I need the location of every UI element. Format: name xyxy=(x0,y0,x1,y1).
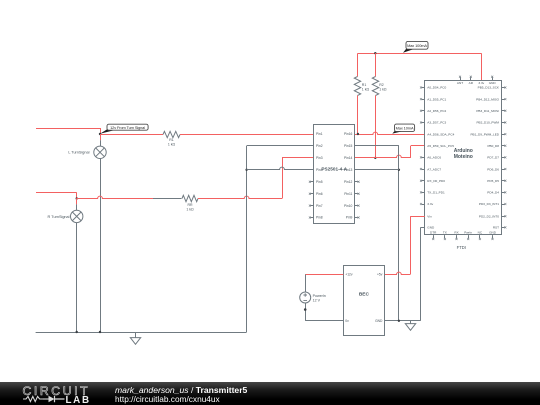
wire net 12v-R from left edge xyxy=(36,192,77,194)
wire 12v top rail xyxy=(358,53,481,55)
wire jog to Arduino A5 xyxy=(411,145,425,147)
svg-text:A7_ADC7: A7_ADC7 xyxy=(427,167,441,171)
svg-text:A5_D59_SCL_PC5: A5_D59_SCL_PC5 xyxy=(427,144,454,148)
svg-text:TX: TX xyxy=(443,230,447,234)
svg-text:A1_D55_PC1: A1_D55_PC1 xyxy=(427,97,446,101)
svg-text:PD5_D5: PD5_D5 xyxy=(487,179,499,183)
wire source to BEC +12v xyxy=(305,274,343,276)
svg-text:FTDI: FTDI xyxy=(457,245,466,250)
node junction at R lamp tap xyxy=(76,197,78,199)
pin 10 stub right xyxy=(355,205,358,207)
svg-text:GND: GND xyxy=(375,319,383,323)
wire Arduino GND down xyxy=(420,227,422,320)
wire lead into RR xyxy=(153,198,182,200)
node junction at L lamp tap xyxy=(99,133,101,135)
svg-text:3.3v: 3.3v xyxy=(478,81,484,85)
wire riser to Vin level xyxy=(410,216,412,274)
svg-text:A2_D56_PC2: A2_D56_PC2 xyxy=(427,109,446,113)
svg-text:Pin5: Pin5 xyxy=(316,180,323,184)
svg-text:PS2501-4-A: PS2501-4-A xyxy=(321,167,347,172)
wire to Pin4 (hop over riser) xyxy=(247,167,314,169)
resistor R2 xyxy=(372,77,378,96)
pin left TX_D1_PD1 xyxy=(422,192,425,194)
svg-text:GND: GND xyxy=(489,81,497,85)
svg-text:DTR: DTR xyxy=(430,230,437,234)
wire junction down to L lamp xyxy=(100,134,102,140)
node junction R4/Pin16 xyxy=(357,133,359,135)
wire source top lead xyxy=(305,274,307,292)
pin right PD2_D2_INT0 xyxy=(502,216,505,218)
pin right PB0_D8 xyxy=(502,145,505,147)
wire RL to PS2501 Pin1 xyxy=(180,134,314,136)
pin 9 stub right xyxy=(355,217,358,219)
pin left 3.3v xyxy=(422,204,425,206)
svg-text:RX: RX xyxy=(454,230,458,234)
svg-text:Pin3: Pin3 xyxy=(316,156,323,160)
svg-text:PwrIn: PwrIn xyxy=(464,230,472,234)
pin top AR xyxy=(470,77,472,80)
svg-text:1 kΩ: 1 kΩ xyxy=(168,143,176,147)
wire jog up xyxy=(410,146,412,158)
svg-text:Pin16: Pin16 xyxy=(344,132,353,136)
svg-text:0v: 0v xyxy=(345,319,349,323)
svg-text:NC: NC xyxy=(478,230,483,234)
pin right PB1_D9_PWM_LED xyxy=(502,134,505,136)
wire L lamp to ground rail xyxy=(100,159,102,333)
pin 6 stub left xyxy=(311,193,314,195)
node junction common/Pin4 xyxy=(245,169,247,171)
svg-text:Arduino: Arduino xyxy=(454,148,473,154)
pin bottom TX xyxy=(444,235,446,238)
svg-text:Pin2: Pin2 xyxy=(316,144,323,148)
resistor RR xyxy=(182,195,198,201)
footer bar xyxy=(0,382,540,405)
wire Arduino GND out xyxy=(421,227,425,229)
svg-text:GND: GND xyxy=(427,226,435,230)
wire junction to RR resistor (hop over L lamp wire) xyxy=(77,196,153,198)
pin right PB4_D12_MISO xyxy=(502,99,505,101)
ground symbol left xyxy=(135,332,137,338)
svg-text:GND: GND xyxy=(489,230,497,234)
pin right PD3_D3_INT1 xyxy=(502,204,505,206)
svg-text:PB5_D13_SCK: PB5_D13_SCK xyxy=(478,86,500,90)
wire Pin14 row to jog (hop over gnd drop) xyxy=(355,155,411,157)
svg-text:R1: R1 xyxy=(362,83,367,87)
wire to Arduino Vin xyxy=(410,216,424,218)
svg-text:PB2_D10_PWM: PB2_D10_PWM xyxy=(476,121,499,125)
node junction R2/Pin14 xyxy=(374,157,376,159)
svg-text:Pin7: Pin7 xyxy=(316,204,323,208)
pin 7 stub left xyxy=(311,205,314,207)
pin left A3_D57_PC3 xyxy=(422,122,425,124)
node junction Pin13 on gnd drop xyxy=(398,169,400,171)
wire 12v rail down to Arduino 3.3v pin xyxy=(481,53,483,80)
wire BEC +5v to riser (hop over gnd drop) xyxy=(384,272,410,274)
op-to-coupler U PS2501-4-A body xyxy=(314,125,355,224)
wire Pin13 to gnd drop xyxy=(355,169,399,171)
wire common return to Pin2 xyxy=(247,145,314,147)
svg-text:Pin8: Pin8 xyxy=(316,216,323,220)
svg-text:R TurnSignal: R TurnSignal xyxy=(48,215,70,219)
wire R4 bottom to Pin16 row xyxy=(357,96,359,135)
svg-text:PB1_D9_PWM_LED: PB1_D9_PWM_LED xyxy=(470,132,499,136)
CircuitLab logo xyxy=(0,382,110,405)
wire step down xyxy=(76,193,78,199)
svg-text:12 V: 12 V xyxy=(313,299,321,303)
wire common return vertical xyxy=(246,146,248,332)
pin right PB2_D10_PWM xyxy=(502,122,505,124)
svg-text:3.3v: 3.3v xyxy=(427,202,433,206)
pin right PD7_D7 xyxy=(502,157,505,159)
svg-text:PD2_D2_INT0: PD2_D2_INT0 xyxy=(479,214,499,218)
pin right PD5_D5 xyxy=(502,180,505,182)
svg-text:Pin11: Pin11 xyxy=(344,192,352,196)
svg-text:RR: RR xyxy=(187,203,193,207)
wire Pin16 to Arduino A4 (hop over R2) xyxy=(355,132,425,134)
ground symbol right xyxy=(410,321,412,324)
svg-text:PB4_D12_MISO: PB4_D12_MISO xyxy=(476,97,499,101)
pin left A6_ADC6 xyxy=(422,157,425,159)
lamp R Turnsignal xyxy=(71,210,83,222)
node junction L lamp on rail xyxy=(99,331,101,333)
svg-text:L TurnSignal: L TurnSignal xyxy=(68,151,89,155)
wire gnd drop vertical xyxy=(398,146,400,321)
wire riser up to Pin3 xyxy=(282,158,284,199)
svg-text:R2: R2 xyxy=(379,83,384,87)
wire R2 top lead xyxy=(375,53,377,76)
svg-text:RX_D0_PD0: RX_D0_PD0 xyxy=(427,179,445,183)
svg-text:+12v: +12v xyxy=(345,273,353,277)
pin bottom GND xyxy=(492,235,494,238)
wire ground bus xyxy=(384,320,420,322)
svg-text:Pin12: Pin12 xyxy=(344,180,353,184)
pin left A2_D56_PC2 xyxy=(422,110,425,112)
callout Max 10mA xyxy=(392,130,402,134)
lamp L Turnsignal xyxy=(94,146,106,158)
svg-text:PowerIn: PowerIn xyxy=(313,294,326,298)
svg-text:Pin1: Pin1 xyxy=(316,132,323,136)
pin left A7_ADC7 xyxy=(422,169,425,171)
IC BEC body xyxy=(344,266,385,336)
wire RR to riser (hop over ground branch) xyxy=(198,196,282,198)
svg-text:Max 10mA: Max 10mA xyxy=(396,125,414,130)
pin 12 stub right xyxy=(355,181,358,183)
svg-text:A3_D57_PC3: A3_D57_PC3 xyxy=(427,121,446,125)
svg-text:AR: AR xyxy=(469,81,474,85)
svg-text:1 kΩ: 1 kΩ xyxy=(362,88,370,92)
resistor RL xyxy=(163,131,180,137)
svg-text:PB0_D8: PB0_D8 xyxy=(487,144,499,148)
svg-text:A0_D54_PC0: A0_D54_PC0 xyxy=(427,86,446,90)
pin 11 stub right xyxy=(355,193,358,195)
wire source to BEC 0v xyxy=(305,320,343,322)
wire junction down to R lamp xyxy=(76,199,78,205)
pin top GND xyxy=(492,77,494,80)
pin right PD4_D4 xyxy=(502,192,505,194)
pin right RST xyxy=(502,227,505,229)
wire source bottom lead xyxy=(305,303,307,321)
pin bottom PwrIn xyxy=(468,235,470,238)
svg-text:Pin15: Pin15 xyxy=(344,144,353,148)
IC Arduino Moteino body xyxy=(425,81,502,235)
pin top ANT xyxy=(460,77,462,80)
wire junction to RL xyxy=(100,134,163,136)
svg-text:Max 100mA: Max 100mA xyxy=(407,43,427,48)
svg-text:Pin10: Pin10 xyxy=(344,204,353,208)
svg-text:Moteino: Moteino xyxy=(454,154,473,160)
node junction gnd drop/bus xyxy=(398,320,400,322)
svg-text:Vin: Vin xyxy=(427,214,432,218)
svg-text:12v From Turn Signal: 12v From Turn Signal xyxy=(110,125,145,130)
wire R4 top lead xyxy=(357,53,359,76)
svg-text:PD6_D6: PD6_D6 xyxy=(487,167,499,171)
pin 8 stub left xyxy=(311,217,314,219)
pin right PB5_D13_SCK xyxy=(502,87,505,89)
pin right PB3_D11_MOSI xyxy=(502,110,505,112)
resistor R1 xyxy=(354,77,360,96)
wire R2 bottom down to Pin14 row xyxy=(375,96,377,158)
wire net 12v-L from left edge xyxy=(36,128,100,130)
svg-text:RST: RST xyxy=(493,226,499,230)
svg-text:PD7_D7: PD7_D7 xyxy=(487,156,499,160)
node junction R2 top xyxy=(374,52,376,54)
node junction R lamp on rail xyxy=(76,331,78,333)
svg-text:ANT: ANT xyxy=(457,81,463,85)
svg-text:Pin9: Pin9 xyxy=(346,216,353,220)
svg-text:TX_D1_PD1: TX_D1_PD1 xyxy=(427,191,445,195)
callout 12v From Turn Signal xyxy=(100,129,115,134)
voltage source PowerIn 12V xyxy=(300,292,311,303)
svg-text:PD3_D3_INT1: PD3_D3_INT1 xyxy=(479,202,499,206)
svg-text:A6_ADC6: A6_ADC6 xyxy=(427,156,441,160)
pin bottom NC xyxy=(479,235,481,238)
svg-text:Pin6: Pin6 xyxy=(316,192,323,196)
pin left RX_D0_PD0 xyxy=(422,180,425,182)
pin bottom DTR xyxy=(433,235,435,238)
svg-text:A4_D58_SDA_PC4: A4_D58_SDA_PC4 xyxy=(427,132,454,136)
pin left A0_D54_PC0 xyxy=(422,87,425,89)
pin bottom RX xyxy=(456,235,458,238)
pin right PD6_D6 xyxy=(502,169,505,171)
callout Max 100mA xyxy=(403,48,414,53)
wire Pin15 to gnd drop xyxy=(355,145,399,147)
svg-text:PD4_D4: PD4_D4 xyxy=(487,191,499,195)
pin left A1_D55_PC1 xyxy=(422,99,425,101)
wire R lamp to ground rail xyxy=(76,223,78,332)
svg-text:LAB: LAB xyxy=(66,395,91,405)
svg-text:1 kΩ: 1 kΩ xyxy=(186,208,194,212)
svg-text:PB3_D11_MOSI: PB3_D11_MOSI xyxy=(476,109,499,113)
node terminal dot xyxy=(304,308,307,311)
svg-text:1 kΩ: 1 kΩ xyxy=(379,88,387,92)
pin 5 stub left xyxy=(311,181,314,183)
wire riser to PS2501 Pin3 xyxy=(282,157,314,159)
wire ground rail bottom xyxy=(36,332,247,334)
svg-text:Pin14: Pin14 xyxy=(344,156,353,160)
svg-text:+5v: +5v xyxy=(377,273,383,277)
svg-text:BEC: BEC xyxy=(359,292,370,298)
wire step down to junction xyxy=(100,128,102,134)
